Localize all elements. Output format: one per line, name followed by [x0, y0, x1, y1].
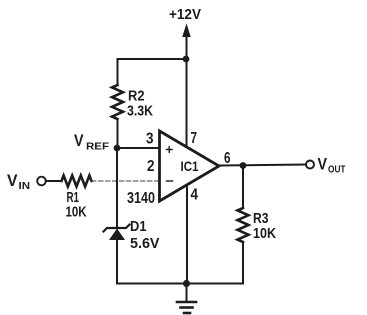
svg-text:3.3K: 3.3K: [127, 104, 153, 120]
svg-text:7: 7: [191, 130, 198, 147]
svg-text:D1: D1: [130, 219, 147, 235]
wire R3 bottom lead: [242, 242, 244, 284]
svg-text:4: 4: [191, 187, 199, 204]
node output junction: [240, 162, 247, 169]
svg-text:3: 3: [146, 131, 154, 148]
resistor R3: [238, 208, 249, 242]
svg-text:IN: IN: [19, 180, 31, 192]
op-amp U1 triangle: [160, 131, 220, 201]
wire pin 4: [186, 186, 188, 284]
node top junction: [183, 56, 190, 63]
wire top rail: [118, 59, 187, 85]
diode D1 zener: [104, 225, 130, 241]
svg-text:R3: R3: [253, 211, 269, 227]
svg-text:IC1: IC1: [181, 158, 199, 174]
wire pin 2 (faint dashed in scan): [92, 180, 160, 182]
resistor R1: [62, 176, 92, 187]
wire R2 bottom lead: [117, 119, 119, 148]
svg-text:V: V: [74, 132, 84, 150]
svg-text:10K: 10K: [253, 226, 276, 242]
svg-text:5.6V: 5.6V: [130, 236, 160, 252]
wire ground stub: [186, 284, 188, 301]
wire pin 7: [186, 59, 188, 147]
svg-text:+12V: +12V: [169, 7, 201, 23]
svg-text:R2: R2: [128, 89, 145, 105]
op-amp plus input mark: [167, 147, 173, 153]
svg-text:REF: REF: [86, 141, 110, 153]
wire VIN lead: [46, 180, 62, 182]
wire zener bottom lead: [116, 240, 118, 284]
svg-text:V: V: [318, 156, 328, 174]
svg-text:V: V: [7, 172, 18, 190]
wire pin 6 output: [219, 165, 306, 166]
wire arrow stem: [186, 33, 188, 59]
resistor R2: [112, 85, 123, 119]
svg-text:3140: 3140: [127, 190, 155, 207]
svg-text:6: 6: [224, 150, 231, 167]
wire bottom rail: [117, 283, 243, 285]
svg-text:OUT: OUT: [328, 164, 346, 176]
+12V arrow: [182, 24, 191, 38]
terminal VOUT: [306, 161, 314, 169]
node ground junction: [183, 280, 190, 287]
wire R3 top lead: [242, 166, 244, 209]
svg-text:2: 2: [147, 158, 155, 175]
svg-text:10K: 10K: [66, 205, 87, 221]
op-amp minus input mark: [167, 180, 173, 182]
wire VREF to zener: [116, 148, 118, 228]
wire pin 3: [117, 147, 160, 149]
ground: [177, 302, 196, 313]
